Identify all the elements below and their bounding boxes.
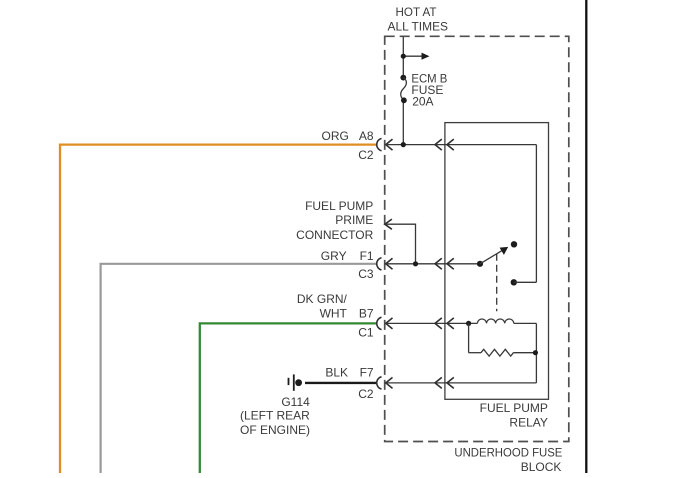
switch blade arrowhead [500,247,509,255]
connector C3-F1 at fuse block [377,258,393,270]
connector C1-B7 at fuse block [377,317,393,329]
wire B7 row inside block [386,322,478,324]
wire A8 row inside block [386,144,537,146]
svg-text:20A: 20A [412,95,433,109]
wire GRY (gray) [101,264,378,473]
connector arrows at relay edge B7 [435,318,454,329]
wire right conductor down [535,323,537,383]
svg-text:CONNECTOR: CONNECTOR [296,228,373,242]
node GRY junction [413,261,418,266]
connector C2-F7 at fuse block [377,377,393,389]
svg-text:C2: C2 [358,387,374,401]
svg-text:C1: C1 [358,326,374,340]
wire fuse to A8 junction [402,100,404,145]
svg-text:DK GRN/: DK GRN/ [297,292,348,306]
resistor (parallel with coil) [469,349,538,356]
wire prime connector to GRY junction [385,224,416,264]
wire ORG (orange) [60,145,377,473]
wire coil to right conductor [514,322,537,324]
connector arrows at relay edge F7 [435,377,454,388]
arrow to other circuits [403,53,429,60]
fuse ECM B 20A [400,75,406,104]
svg-text:GRY: GRY [321,249,347,263]
svg-text:HOT AT: HOT AT [396,5,438,19]
node top junction [401,54,406,59]
fuel pump prime connector arrow [385,219,392,229]
svg-text:FUEL PUMP: FUEL PUMP [480,401,548,415]
bus bar (solid vertical line right side) [585,0,587,473]
node resistor junction [533,350,538,355]
svg-text:C3: C3 [358,267,374,281]
svg-text:BLK: BLK [325,365,348,379]
svg-text:C2: C2 [358,148,374,162]
svg-text:FUEL PUMP: FUEL PUMP [305,199,373,213]
wire BLK (black) [305,382,378,384]
underhood fuse block dashed box [385,36,569,441]
svg-text:A8: A8 [359,129,374,143]
connector arrows at relay edge F1 [435,258,454,269]
relay box outline U3 [445,123,549,400]
wire lower contact to battery feed [514,281,537,283]
node A8 junction [401,142,406,147]
connector arrows at relay edge A8 [435,139,454,150]
switch upper contact node [511,241,517,247]
wire coil junction down to resistor [468,323,470,352]
svg-text:F1: F1 [360,249,374,263]
linkage dashed line [496,254,498,311]
svg-text:B7: B7 [359,306,374,320]
relay coil [466,319,536,326]
connector C2-A8 at fuse block [377,138,393,150]
wire F7 row inside block [386,382,537,384]
svg-text:(LEFT REAR: (LEFT REAR [240,409,310,423]
svg-text:OF ENGINE): OF ENGINE) [240,423,310,437]
svg-text:UNDERHOOD FUSE: UNDERHOOD FUSE [454,446,562,460]
wire F1 row inside block [386,263,480,265]
svg-text:BLOCK: BLOCK [521,460,562,473]
svg-text:F7: F7 [360,365,374,379]
svg-text:G114: G114 [281,395,310,409]
wire DK GRN/WHT (green) [200,323,377,473]
svg-text:ALL TIMES: ALL TIMES [388,20,449,34]
ground G114 [289,374,303,390]
svg-text:PRIME: PRIME [335,213,373,227]
node coil junction [466,321,471,326]
wire battery feed down right side of relay [535,145,537,283]
switch blade [480,250,504,264]
svg-text:ORG: ORG [322,129,349,143]
svg-text:RELAY: RELAY [509,416,547,430]
svg-text:WHT: WHT [320,306,348,320]
wire hot feed vertical [402,36,404,78]
switch lower contact node [511,279,517,285]
relay switch [477,241,537,311]
switch common node [477,261,483,267]
